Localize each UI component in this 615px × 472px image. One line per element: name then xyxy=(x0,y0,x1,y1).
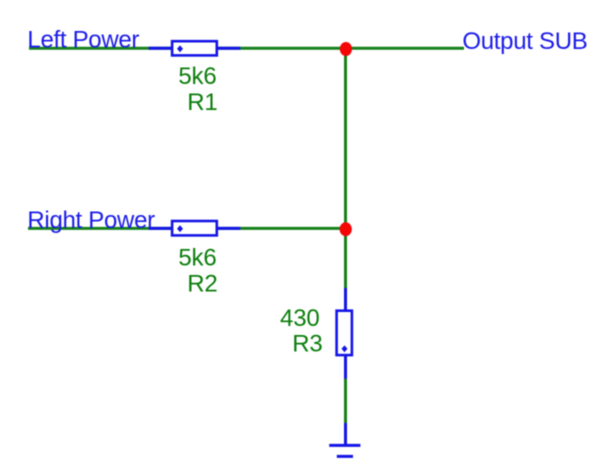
wire vertical: R3 to ground xyxy=(344,378,347,424)
resistor R1 xyxy=(149,41,241,55)
junction node row1 xyxy=(340,42,352,56)
svg-text:5k6: 5k6 xyxy=(178,63,216,90)
svg-text:R3: R3 xyxy=(292,331,322,358)
svg-text:R1: R1 xyxy=(187,89,217,116)
resistor R3 xyxy=(337,288,352,379)
wire vertical: junction1 to R3 xyxy=(344,48,347,289)
wire net row2: Right Power to junction xyxy=(28,227,346,230)
resistor R2 xyxy=(149,221,241,235)
junction node row2 xyxy=(340,222,352,236)
svg-text:5k6: 5k6 xyxy=(178,245,216,272)
svg-text:Right Power: Right Power xyxy=(27,207,155,234)
svg-text:Left Power: Left Power xyxy=(27,26,139,53)
svg-text:430: 430 xyxy=(280,305,319,332)
ground xyxy=(329,423,360,456)
wire net row1: Left Power to Output SUB xyxy=(29,47,464,50)
svg-text:R2: R2 xyxy=(187,271,217,298)
svg-text:Output SUB: Output SUB xyxy=(462,28,587,55)
